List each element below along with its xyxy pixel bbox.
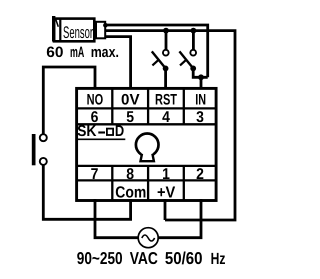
svg-text:IN: IN <box>195 91 206 108</box>
junction node on +V rail above IN switch <box>191 28 197 34</box>
switch S2 (count/IN) <box>179 31 207 78</box>
svg-text:1: 1 <box>162 166 170 183</box>
svg-text:VAC: VAC <box>130 248 158 268</box>
terminal grid lines <box>77 89 217 201</box>
wire AC source to terminal 2 <box>158 199 201 238</box>
wire sensor output to IN node <box>106 25 208 77</box>
svg-text:NO: NO <box>87 91 104 108</box>
svg-text:Com: Com <box>115 184 146 202</box>
wire sensor 0V down to 0V terminal <box>106 37 131 89</box>
junction node at IN wire <box>198 74 204 80</box>
junction node on +V rail above RST switch <box>163 28 169 34</box>
AC source V1 <box>138 228 158 248</box>
svg-text:RST: RST <box>155 91 178 108</box>
svg-text:8: 8 <box>126 166 134 183</box>
svg-text:50/60: 50/60 <box>165 248 203 268</box>
wire +V terminal stub <box>164 199 167 220</box>
svg-text:D: D <box>115 123 124 140</box>
label 90~250 VAC 50/60 Hz <box>77 248 226 268</box>
svg-text:Sensor: Sensor <box>63 23 93 42</box>
svg-text:7: 7 <box>91 166 99 183</box>
wire NO terminal to pushbutton <box>43 67 95 134</box>
svg-text:mA: mA <box>70 44 84 61</box>
svg-text:Hz: Hz <box>211 250 226 268</box>
wire pushbutton to Com terminal <box>43 165 130 219</box>
svg-text:SK: SK <box>77 123 97 140</box>
switch S1 (RST) <box>152 31 169 89</box>
counter unit U1 outline <box>77 88 217 200</box>
label 60 mA max. <box>46 44 119 61</box>
svg-text:60: 60 <box>46 44 63 61</box>
buzzer/lamp symbol <box>136 134 159 163</box>
wire terminal 7 to AC source <box>95 199 138 238</box>
sensor connector plug <box>96 22 108 39</box>
svg-text:2: 2 <box>196 166 204 183</box>
sensor SENS1 body <box>52 16 94 42</box>
svg-text:0V: 0V <box>121 91 140 108</box>
pushbutton PB1 <box>32 134 47 165</box>
wire IN terminal stub <box>200 77 203 89</box>
svg-text:4: 4 <box>162 109 170 126</box>
svg-text:90~250: 90~250 <box>77 248 123 268</box>
wire +V rail from sensor down right side to +V line <box>106 31 235 220</box>
model label SK-[]D <box>76 123 125 140</box>
svg-text:5: 5 <box>126 109 134 126</box>
svg-text:+V: +V <box>157 184 176 201</box>
svg-text:max.: max. <box>91 44 119 61</box>
svg-text:3: 3 <box>196 109 204 126</box>
